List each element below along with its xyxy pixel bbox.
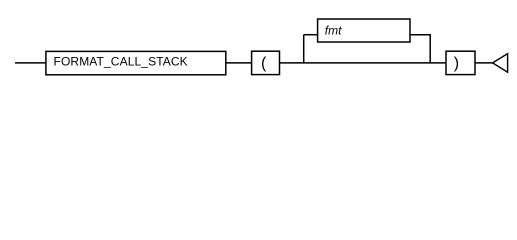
- wire: lead-in: [15, 62, 46, 64]
- box (: [252, 51, 280, 74]
- wire: main line under fmt branch: [280, 62, 447, 64]
- terminator arrow triangle: [493, 54, 508, 73]
- svg-text:): ): [454, 55, 459, 72]
- wire: branch up left: [303, 35, 305, 63]
- svg-text:FORMAT_CALL_STACK: FORMAT_CALL_STACK: [54, 55, 188, 69]
- wire: branch stub left: [304, 34, 318, 36]
- wire: box3 to terminator: [475, 62, 493, 64]
- box FORMAT_CALL_STACK: [46, 51, 226, 74]
- box fmt: [318, 19, 410, 42]
- box ): [446, 51, 475, 74]
- wire: branch stub right: [410, 34, 431, 36]
- svg-text:(: (: [261, 55, 267, 72]
- wire: branch down right: [429, 35, 431, 63]
- svg-text:fmt: fmt: [325, 23, 342, 37]
- wire: box1 to box2: [226, 62, 252, 64]
